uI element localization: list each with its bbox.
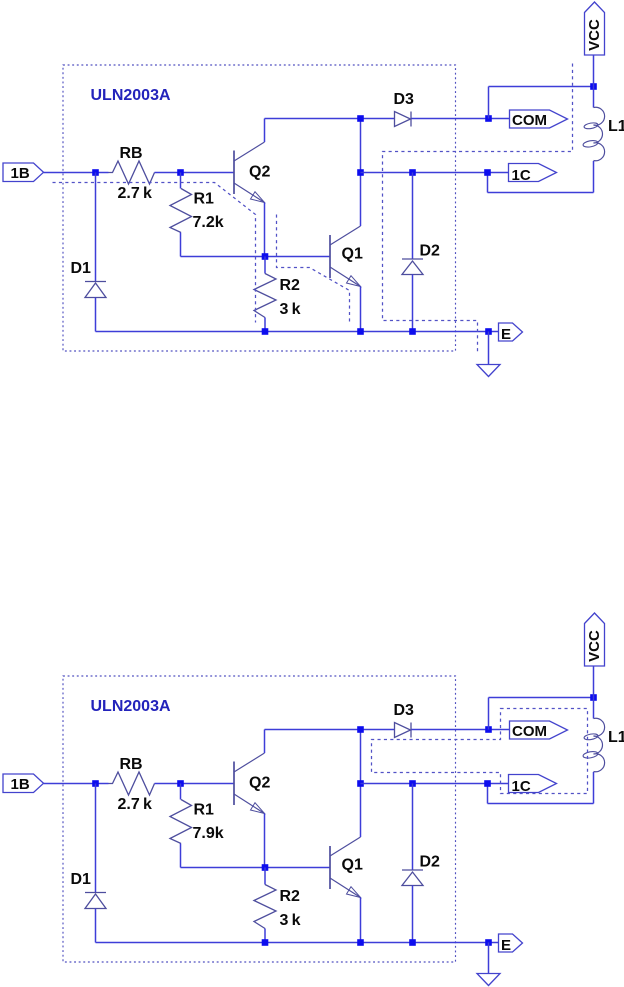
wire node to R1 (top): [180, 173, 182, 189]
junction Q1 collector / COM rail (bottom): [357, 726, 364, 733]
junction node at R1 top (bottom): [177, 780, 184, 787]
port tag E (top): [499, 323, 523, 343]
wire top rail to VCC (top): [489, 86, 594, 88]
wire 1C rail (bottom): [361, 783, 509, 785]
wire VCC node to L1 (bottom): [593, 698, 595, 719]
svg-text:COM: COM: [512, 723, 547, 740]
svg-text:L1: L1: [608, 118, 624, 135]
highlighted freewheeling loop around COM L1 1C (bottom): [372, 709, 588, 794]
svg-text:2.7 k: 2.7 k: [118, 796, 152, 813]
ground symbol (bottom): [477, 943, 500, 986]
wire Q1 collector up to COM rail (bottom): [360, 730, 362, 838]
wire D1 to E rail (top): [95, 298, 97, 332]
diode D2 (bottom): [402, 854, 440, 886]
junction Q1 emitter on E rail (top): [357, 328, 364, 335]
wire Q1 collector up to COM rail (top): [360, 119, 362, 227]
wire L1 return (bottom): [488, 803, 594, 805]
svg-text:ULN2003A: ULN2003A: [91, 87, 171, 104]
IC package boundary ULN2003A (top): [63, 65, 456, 351]
power tag VCC (top): [585, 2, 605, 55]
wire top rail to VCC (bottom): [489, 697, 594, 699]
wire R1 to Q1 base node (top): [180, 233, 182, 257]
wire L1 bottom down (bottom): [593, 772, 595, 804]
svg-text:R1: R1: [194, 191, 215, 208]
wire Q2 collector up (top): [264, 119, 266, 143]
junction 1C node (top): [484, 169, 491, 176]
junction D2 bottom on E rail (bottom): [409, 939, 416, 946]
svg-text:7.2k: 7.2k: [193, 214, 224, 231]
junction Q1 collector / COM rail (top): [357, 115, 364, 122]
svg-text:VCC: VCC: [586, 630, 603, 662]
svg-text:1B: 1B: [11, 165, 30, 182]
wire node to Q1 base (bottom): [181, 867, 330, 869]
junction R2 bottom on E rail (bottom): [262, 939, 269, 946]
wire L1 bottom down (top): [593, 161, 595, 193]
wire node to R1 (bottom): [180, 784, 182, 800]
svg-text:D2: D2: [420, 243, 441, 260]
svg-text:COM: COM: [512, 112, 547, 129]
wire COM rail left of D3 (top): [265, 118, 395, 120]
diode D2 (top): [402, 243, 440, 275]
junction ground node on E rail (top): [485, 328, 492, 335]
svg-text:D3: D3: [394, 91, 415, 108]
svg-text:RB: RB: [120, 756, 143, 773]
wire 1C rail to D2 (bottom): [412, 784, 414, 871]
junction 1C node (bottom): [484, 780, 491, 787]
diode D3 (bottom): [394, 702, 415, 738]
svg-text:D3: D3: [394, 702, 415, 719]
svg-text:RB: RB: [120, 145, 143, 162]
resistor R2 (top): [254, 257, 300, 332]
wire Q2 emitter down (bottom): [264, 814, 266, 868]
wire Q2 collector up (bottom): [264, 730, 266, 754]
wire 1B to RB (bottom): [44, 783, 109, 785]
junction node R2 top (bottom): [262, 864, 269, 871]
junction COM node (bottom): [485, 726, 492, 733]
wire L1 return (top): [488, 192, 594, 194]
wire D3 to COM tag (bottom): [412, 729, 510, 731]
junction D2 top on 1C rail (bottom): [409, 780, 416, 787]
svg-text:Q1: Q1: [342, 246, 363, 263]
wire COM node up (top): [488, 87, 490, 119]
resistor R1 (bottom): [170, 800, 214, 844]
wire 1C rail (top): [361, 172, 509, 174]
junction Q1 collector / 1C rail (bottom): [357, 780, 364, 787]
port tag E (bottom): [499, 934, 523, 954]
wire RB to Q2 base (bottom): [155, 783, 234, 785]
port tag 1C (bottom): [509, 775, 557, 796]
transistor Q1 (top): [330, 226, 363, 287]
wire E rail (bottom): [96, 942, 499, 944]
wire VCC tag lead (bottom): [593, 667, 595, 698]
power tag VCC (bottom): [585, 613, 605, 666]
wire Q1 emitter down (bottom): [360, 898, 362, 943]
svg-text:D1: D1: [71, 871, 92, 888]
wire RB to Q2 base (top): [155, 172, 234, 174]
resistor R2 (bottom): [254, 868, 300, 943]
wire D2 to E rail (bottom): [412, 886, 414, 943]
wire R1 to Q1 base node (bottom): [180, 844, 182, 868]
wire D3 to COM tag (top): [412, 118, 510, 120]
resistor R1 (top): [170, 189, 214, 233]
svg-text:L1: L1: [608, 729, 624, 746]
svg-text:D2: D2: [420, 854, 441, 871]
wire Q2 emitter down (top): [264, 203, 266, 257]
wire Q1 emitter down (top): [360, 287, 362, 332]
port tag COM (top): [510, 110, 568, 129]
wire COM rail left of D3 (bottom): [265, 729, 395, 731]
transistor Q2 (bottom): [234, 753, 270, 814]
junction node at D1 top (top): [92, 169, 99, 176]
wire 1C node down (top): [487, 173, 489, 193]
wire 1C rail to D2 (top): [412, 173, 414, 260]
junction D2 bottom on E rail (top): [409, 328, 416, 335]
wire node to D1 (top): [95, 173, 97, 282]
wire 1B to RB (top): [44, 172, 109, 174]
diode D1 (bottom): [71, 871, 107, 909]
IC package boundary ULN2003A (bottom): [63, 676, 456, 962]
junction ground node on E rail (bottom): [485, 939, 492, 946]
svg-text:Q2: Q2: [249, 775, 270, 792]
junction R2 bottom on E rail (top): [262, 328, 269, 335]
junction COM node (top): [485, 115, 492, 122]
svg-text:Q2: Q2: [249, 164, 270, 181]
inductor L1 (top): [583, 107, 624, 161]
svg-text:R1: R1: [194, 802, 215, 819]
port tag 1B (top): [3, 163, 44, 182]
svg-text:2.7 k: 2.7 k: [118, 185, 152, 202]
highlighted path through Q1 emitter (top): [277, 215, 350, 323]
transistor Q2 (top): [234, 142, 270, 203]
port tag COM (bottom): [510, 721, 568, 740]
diode D1 (top): [71, 260, 107, 298]
svg-text:E: E: [501, 937, 511, 954]
junction VCC node (top): [590, 83, 597, 90]
svg-text:1C: 1C: [512, 778, 531, 795]
svg-text:D1: D1: [71, 260, 92, 277]
wire VCC node to L1 (top): [593, 87, 595, 108]
wire node to Q1 base (top): [181, 256, 330, 258]
junction Q1 collector / 1C rail (top): [357, 169, 364, 176]
junction node R2 top (top): [262, 253, 269, 260]
svg-text:3 k: 3 k: [280, 912, 301, 929]
svg-text:7.9k: 7.9k: [193, 825, 224, 842]
junction VCC node (bottom): [590, 694, 597, 701]
junction node at D1 top (bottom): [92, 780, 99, 787]
svg-text:1C: 1C: [512, 167, 531, 184]
junction D2 top on 1C rail (top): [409, 169, 416, 176]
inductor L1 (bottom): [583, 718, 624, 772]
highlighted path input through Q2 emitter to R2 (top): [53, 183, 256, 323]
wire D1 to E rail (bottom): [95, 909, 97, 943]
svg-text:R2: R2: [280, 277, 301, 294]
wire 1C node down (bottom): [487, 784, 489, 804]
svg-text:3 k: 3 k: [280, 301, 301, 318]
wire E rail (top): [96, 331, 499, 333]
resistor RB (top): [109, 145, 155, 184]
diode D3 (top): [394, 91, 415, 127]
svg-text:E: E: [501, 326, 511, 343]
svg-text:ULN2003A: ULN2003A: [91, 698, 171, 715]
wire node to D1 (bottom): [95, 784, 97, 893]
transistor Q1 (bottom): [330, 837, 363, 898]
junction node at R1 top (top): [177, 169, 184, 176]
resistor RB (bottom): [109, 756, 155, 795]
wire COM node up (bottom): [488, 698, 490, 730]
svg-text:R2: R2: [280, 888, 301, 905]
wire VCC tag lead (top): [593, 56, 595, 87]
svg-text:Q1: Q1: [342, 857, 363, 874]
highlighted load loop outline (top): [383, 64, 573, 352]
port tag 1C (top): [509, 164, 557, 185]
svg-text:1B: 1B: [11, 776, 30, 793]
port tag 1B (bottom): [3, 774, 44, 793]
ground symbol (top): [477, 332, 500, 377]
wire D2 to E rail (top): [412, 275, 414, 332]
svg-text:VCC: VCC: [586, 19, 603, 51]
junction Q1 emitter on E rail (bottom): [357, 939, 364, 946]
